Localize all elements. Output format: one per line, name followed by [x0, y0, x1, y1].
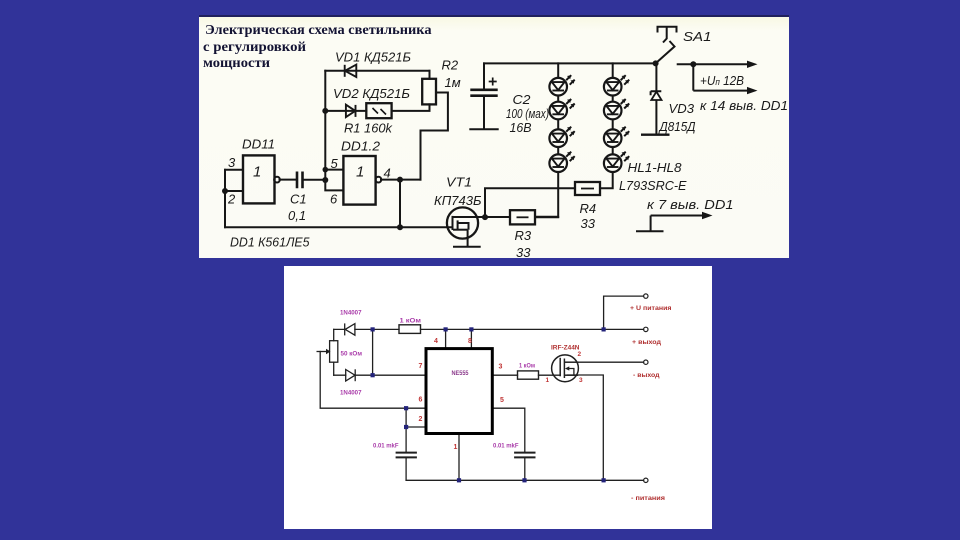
wire LED column 2	[600, 63, 613, 188]
svg-text:R3: R3	[515, 228, 532, 243]
svg-text:16В: 16В	[510, 120, 532, 135]
svg-text:C1: C1	[290, 192, 307, 207]
ground	[453, 230, 481, 247]
node junction dots	[222, 60, 696, 230]
svg-text:33: 33	[581, 216, 596, 231]
resistor R4	[575, 182, 600, 195]
terminal output1	[644, 327, 648, 331]
wire cap1 leads	[405, 427, 407, 480]
wire DD1.2 output	[381, 179, 421, 181]
wire source down	[568, 375, 604, 480]
wire top supply rail	[484, 62, 656, 64]
capacitor C bottom right	[514, 453, 535, 458]
capacitor C2	[470, 78, 497, 96]
svg-text:VD2 КД521Б: VD2 КД521Б	[333, 86, 411, 101]
top scanned schematic panel	[199, 15, 789, 258]
wire DD1.1 output to C1	[280, 179, 297, 181]
wire pin5 to cap2	[492, 408, 525, 480]
svg-text:5: 5	[331, 156, 339, 171]
resistor 1k gate	[518, 371, 539, 379]
wire staircase output to R2	[421, 93, 448, 180]
svg-text:DD1 К561ЛЕ5: DD1 К561ЛЕ5	[230, 235, 310, 250]
terminal +U	[644, 294, 648, 298]
wire vertical node x325	[324, 71, 326, 180]
svg-text:с регулировкой: с регулировкой	[203, 40, 306, 55]
svg-text:100 (мах): 100 (мах)	[506, 107, 549, 121]
svg-text:1: 1	[546, 377, 550, 384]
junction squares	[371, 327, 606, 482]
wire pot bottom bend	[333, 362, 335, 375]
svg-text:1N4007: 1N4007	[340, 390, 362, 397]
svg-text:0,1: 0,1	[288, 208, 306, 223]
svg-text:2: 2	[578, 351, 582, 358]
potentiometer 50k	[317, 341, 338, 363]
wire R1 to R2 bottom	[392, 104, 430, 111]
svg-text:5: 5	[500, 397, 504, 404]
wire pin4 pin8 stubs	[446, 329, 472, 348]
svg-text:1 кОм: 1 кОм	[400, 318, 422, 325]
resistor 1k top	[399, 325, 421, 334]
svg-text:1 кОм: 1 кОм	[519, 363, 535, 370]
wire pin2 branch	[406, 408, 426, 427]
svg-text:3: 3	[228, 155, 236, 170]
svg-text:- питания: - питания	[631, 495, 665, 502]
svg-text:+ U питания: + U питания	[630, 305, 672, 312]
svg-text:Электрическая схема светильник: Электрическая схема светильника	[205, 23, 432, 38]
wire bottom rail to VT1 gate	[225, 226, 453, 228]
wire pin3 to gate resistor	[492, 374, 560, 376]
wire VD2 branch left	[325, 110, 366, 112]
LED HL1	[549, 75, 574, 95]
transistor IRF-Z44N	[552, 355, 579, 382]
wire R2 top stub	[429, 71, 431, 79]
svg-text:VD3: VD3	[669, 101, 695, 116]
svg-text:C2: C2	[513, 92, 532, 107]
wire drain to output	[578, 361, 643, 363]
capacitor C1	[297, 172, 303, 189]
LED HL7	[604, 127, 629, 147]
arrow to pin 7 DD1	[636, 216, 703, 232]
wire pin6 bend	[325, 180, 343, 190]
transistor VT1	[447, 207, 478, 238]
capacitor C bottom left	[396, 453, 417, 458]
svg-text:NE555: NE555	[452, 370, 469, 377]
svg-text:1N4007: 1N4007	[340, 310, 362, 317]
wire LED column 1	[535, 63, 558, 216]
bottom schematic panel	[284, 266, 712, 529]
svg-text:КП743Б: КП743Б	[434, 193, 482, 208]
wire pot top bend	[333, 329, 335, 340]
terminal -U	[644, 478, 648, 482]
svg-text:1: 1	[356, 164, 364, 181]
title text	[203, 23, 432, 71]
diode D2 1N4007	[346, 369, 356, 381]
wire pin5 stub	[325, 169, 343, 171]
svg-text:4: 4	[434, 338, 438, 345]
svg-text:- выход: - выход	[633, 372, 660, 379]
svg-text:3: 3	[499, 364, 503, 371]
wire C2 stubs and end bar	[470, 63, 497, 129]
svg-text:VD1 КД521Б: VD1 КД521Б	[335, 50, 412, 65]
diode D1 1N4007	[345, 323, 355, 335]
wire pin1 stub	[458, 435, 460, 481]
svg-text:VT1: VT1	[446, 175, 472, 190]
svg-text:6: 6	[330, 192, 338, 207]
svg-text:DD1.2: DD1.2	[341, 139, 381, 154]
wire +U branch	[604, 296, 644, 329]
svg-text:Д815Д: Д815Д	[658, 119, 696, 134]
switch SA1	[656, 27, 678, 64]
svg-text:7: 7	[419, 363, 423, 370]
wire R3 to LED column 1	[535, 216, 558, 218]
LED HL6	[604, 99, 629, 119]
wire pin2 stub	[225, 190, 243, 192]
wire wiper loop	[320, 352, 425, 409]
wire pin3 stub	[225, 169, 243, 171]
svg-text:DD11: DD11	[242, 137, 275, 152]
svg-text:6: 6	[419, 397, 423, 404]
svg-text:0.01 mkF: 0.01 mkF	[373, 443, 399, 450]
wire output to rail vertical	[399, 180, 401, 228]
svg-text:+Uп 12В: +Uп 12В	[700, 73, 744, 88]
diode VD2	[346, 105, 356, 117]
svg-text:8: 8	[468, 338, 472, 345]
wire drain to R3	[453, 216, 511, 218]
svg-text:33: 33	[516, 245, 531, 258]
svg-text:2: 2	[419, 416, 423, 423]
LED HL3	[549, 127, 574, 147]
LED HL2	[549, 99, 574, 119]
svg-text:4: 4	[384, 166, 391, 181]
svg-text:L793SRC-E: L793SRC-E	[619, 178, 687, 193]
svg-text:2: 2	[227, 192, 236, 207]
LED HL5	[604, 75, 629, 95]
wire C1 to node	[304, 179, 326, 181]
diode VD1	[345, 65, 357, 77]
wire junction vertical between diodes	[372, 329, 374, 375]
svg-text:+ выход: + выход	[632, 339, 661, 346]
svg-text:1: 1	[454, 444, 458, 451]
svg-text:R2: R2	[442, 58, 459, 73]
LED HL8	[604, 152, 629, 172]
svg-text:к 14 выв. DD1: к 14 выв. DD1	[700, 99, 788, 113]
svg-text:к 7 выв. DD1: к 7 выв. DD1	[647, 198, 734, 212]
IC NE555	[426, 349, 492, 434]
zener diode VD3	[641, 63, 670, 134]
svg-text:1: 1	[253, 164, 261, 181]
wire bottom rail	[406, 479, 643, 481]
svg-text:0.01 mkF: 0.01 mkF	[493, 443, 519, 450]
wire drain to R4	[485, 188, 575, 217]
LED HL4	[549, 152, 574, 172]
svg-text:IRF-Z44N: IRF-Z44N	[551, 345, 580, 352]
svg-text:SA1: SA1	[683, 29, 712, 44]
svg-text:50 кОм: 50 кОм	[341, 351, 363, 358]
terminal output2	[644, 360, 648, 364]
svg-text:R4: R4	[580, 201, 597, 216]
wire DD1.1 input tie vertical	[224, 170, 226, 191]
resistor R3	[510, 210, 535, 224]
svg-text:R1 160k: R1 160k	[344, 121, 393, 136]
wire feedback down	[224, 191, 226, 227]
wire top rail	[334, 328, 644, 330]
svg-text:3: 3	[579, 377, 583, 384]
resistor R1	[366, 103, 391, 118]
gate DD1.2	[343, 156, 381, 205]
svg-text:1м: 1м	[445, 75, 461, 90]
resistor R2	[422, 79, 436, 105]
wire bottom diode to pin7	[334, 374, 426, 376]
arrow +Un 12V	[677, 64, 748, 90]
svg-text:мощности: мощности	[203, 56, 270, 71]
svg-text:HL1-HL8: HL1-HL8	[628, 160, 683, 175]
gate DD1.1	[243, 155, 280, 203]
wire VD1 branch	[325, 70, 429, 72]
